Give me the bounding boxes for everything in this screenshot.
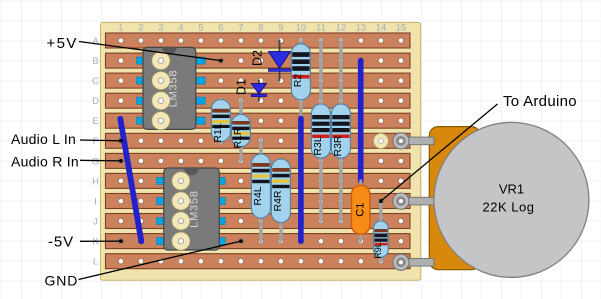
svg-text:VR1: VR1 — [499, 182, 524, 197]
svg-text:G: G — [92, 156, 99, 167]
svg-text:H: H — [92, 176, 99, 187]
diode D1 (C8 to D8) — [235, 79, 267, 101]
svg-text:LM358: LM358 — [188, 190, 200, 228]
svg-text:3: 3 — [158, 23, 163, 34]
svg-text:2: 2 — [138, 23, 143, 34]
potentiometer VR1 lug 1 — [393, 133, 434, 149]
diode D2 (A9 to C9) — [251, 41, 291, 81]
svg-text:E: E — [92, 116, 98, 127]
row letters A-L — [92, 36, 100, 268]
wire W1 (E1 to K2, left diagonal) — [120, 119, 141, 242]
svg-text:10: 10 — [296, 23, 307, 34]
svg-text:R4R: R4R — [272, 190, 284, 211]
track cut marks (cyan squares) — [137, 57, 226, 245]
svg-text:R2: R2 — [292, 74, 304, 88]
svg-text:D1: D1 — [235, 79, 249, 95]
svg-text:13: 13 — [356, 23, 367, 34]
svg-text:R1R: R1R — [232, 127, 244, 148]
op-amp U2 LM358 (bottom) — [164, 168, 220, 250]
svg-text:5: 5 — [198, 23, 203, 34]
svg-text:I: I — [94, 196, 97, 207]
resistor R3R — [331, 41, 350, 222]
svg-text:R4L: R4L — [252, 186, 264, 205]
strip holes grid — [118, 38, 403, 264]
svg-text:R1L: R1L — [212, 123, 224, 142]
svg-text:LM358: LM358 — [167, 70, 179, 108]
potentiometer VR1 dial — [434, 122, 589, 277]
svg-text:14: 14 — [376, 23, 387, 34]
Audio L In callout line — [80, 139, 123, 143]
svg-text:6: 6 — [218, 23, 223, 34]
svg-text:C1: C1 — [355, 203, 367, 217]
svg-text:F: F — [93, 136, 99, 147]
wire W2 (B13 to H13) — [358, 61, 364, 181]
svg-text:-5V: -5V — [48, 233, 74, 250]
resistor R1L — [211, 100, 230, 144]
svg-text:A: A — [92, 36, 99, 47]
solder pad F14 — [373, 133, 388, 148]
potentiometer VR1 lug 3 — [393, 254, 434, 270]
potentiometer VR1 label — [483, 182, 535, 215]
GND callout line — [79, 239, 243, 279]
wire W3 (E10 to K10) — [298, 119, 304, 242]
svg-text:J: J — [93, 216, 98, 227]
svg-text:Audio L In: Audio L In — [11, 131, 76, 147]
svg-text:22K Log: 22K Log — [483, 200, 535, 215]
svg-text:To Arduino: To Arduino — [503, 93, 577, 110]
resistor R2 — [291, 41, 310, 121]
+5V callout line — [79, 42, 223, 63]
svg-text:4: 4 — [178, 23, 183, 34]
resistor R4L — [251, 141, 270, 241]
copper strips rows A-L — [106, 33, 411, 269]
column numbers 1-15 — [118, 23, 406, 34]
capacitor C1 (H13 to K13) — [351, 181, 370, 241]
svg-text:L: L — [93, 257, 98, 268]
svg-text:7: 7 — [238, 23, 243, 34]
resistor R9L — [373, 201, 388, 261]
svg-text:K: K — [92, 237, 99, 248]
op-amp U1 LM358 (top) — [143, 47, 196, 129]
svg-text:8: 8 — [258, 23, 263, 34]
To Arduino callout line — [379, 104, 498, 203]
potentiometer VR1 body — [429, 127, 480, 270]
svg-text:D: D — [92, 96, 99, 107]
svg-text:GND: GND — [45, 273, 79, 289]
stripboard board — [101, 23, 421, 281]
svg-text:11: 11 — [316, 23, 326, 34]
svg-text:Audio R In: Audio R In — [11, 154, 79, 170]
svg-text:9: 9 — [278, 23, 283, 34]
Audio R In callout line — [80, 159, 123, 163]
svg-text:R3L: R3L — [312, 136, 324, 155]
svg-text:D2: D2 — [251, 50, 265, 66]
svg-text:R9L: R9L — [373, 242, 383, 259]
resistor R4R — [271, 159, 290, 241]
svg-text:B: B — [92, 56, 98, 67]
svg-text:R3R: R3R — [332, 135, 344, 156]
resistor R3L — [311, 41, 330, 222]
svg-text:1: 1 — [118, 23, 123, 34]
svg-text:12: 12 — [336, 23, 347, 34]
-5V callout line — [80, 239, 123, 243]
resistor R1R — [231, 101, 250, 161]
svg-text:C: C — [92, 76, 99, 87]
potentiometer VR1 lug 2 — [393, 193, 434, 209]
svg-text:15: 15 — [396, 23, 407, 34]
svg-text:+5V: +5V — [47, 35, 78, 52]
